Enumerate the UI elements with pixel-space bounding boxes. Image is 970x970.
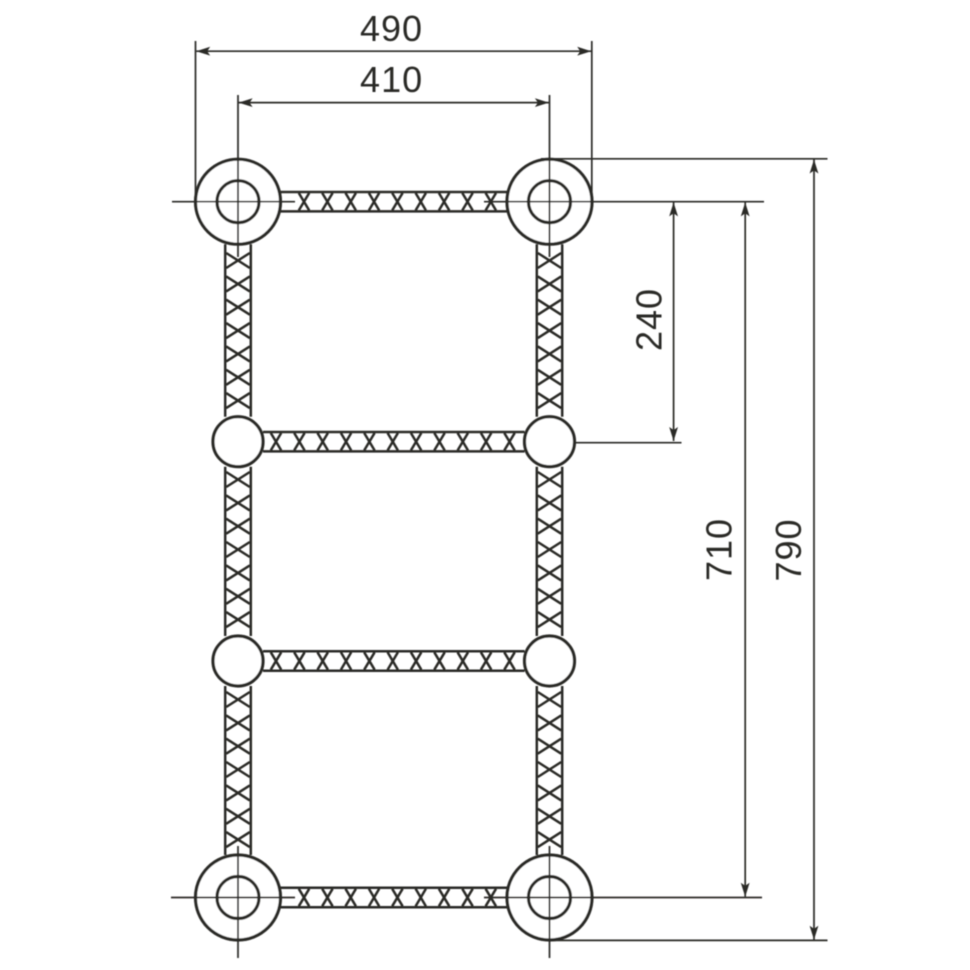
svg-text:240: 240 — [628, 288, 669, 351]
horizontal centerline through top-left flange — [172, 201, 295, 203]
reference line, top end of 790 dimension (tangent to top flange) — [541, 158, 828, 160]
bottom-left corner flange (outer and bore circles) — [196, 855, 281, 940]
right node circle, row 2 — [525, 636, 575, 686]
dimension line 790 with arrowheads — [810, 160, 819, 940]
svg-text:490: 490 — [360, 8, 423, 49]
right rail segment 2 (node row 1 to node row 2), lattice pattern — [537, 467, 562, 636]
vertical centerline through bottom-right flange — [549, 846, 551, 958]
svg-text:790: 790 — [768, 518, 809, 581]
horizontal centerline through top-right flange (extends right as 710/240 reference) — [484, 201, 764, 203]
bottom-right corner flange (outer and bore circles) — [507, 855, 592, 940]
left rail segment 1 (top flange to node row 1), lattice pattern — [225, 244, 251, 417]
left rail segment 3 (node row 2 to bottom flange), lattice pattern — [225, 686, 251, 855]
dimension line 490 with arrowheads — [196, 47, 591, 56]
left rail segment 2 (node row 1 to node row 2), lattice pattern — [225, 467, 251, 636]
top-right corner flange (outer and bore circles) — [507, 159, 592, 244]
dimension text 790 (rotated) — [768, 518, 809, 581]
rung at node row 1, lattice pattern — [263, 432, 525, 451]
vertical centerline through top-left flange (410 extension line) — [237, 95, 239, 257]
horizontal centerline through bottom-left flange — [171, 897, 295, 899]
top rung between top flanges, lattice pattern — [281, 192, 508, 211]
top-left corner flange (outer and bore circles) — [196, 159, 281, 244]
left node circle, row 2 — [213, 636, 263, 686]
reference line, bottom end of 240 dimension (row 1 centerline extension) — [575, 442, 682, 444]
reference line, bottom end of 790 dimension (tangent to bottom flange) — [550, 939, 828, 941]
svg-text:410: 410 — [360, 59, 423, 100]
dimension line 710 with arrowheads — [741, 202, 750, 896]
rung at node row 2, lattice pattern — [263, 651, 525, 670]
left node circle, row 1 — [213, 417, 263, 467]
dimension line 410 with arrowheads — [239, 98, 549, 107]
extension line, right end of 490 dimension — [591, 41, 593, 200]
dimension line 240 with arrowheads — [669, 202, 678, 441]
dimension text 490 — [360, 8, 423, 49]
dimension text 410 — [360, 59, 423, 100]
dimension text 710 (rotated) — [699, 518, 740, 581]
horizontal centerline through bottom-right flange (extends right as 710 reference) — [484, 897, 762, 899]
vertical centerline through bottom-left flange — [237, 846, 239, 958]
bottom rung between bottom flanges, lattice pattern — [281, 888, 508, 907]
vertical centerline through top-right flange (410 extension line) — [549, 95, 551, 257]
svg-text:710: 710 — [699, 518, 740, 581]
right node circle, row 1 — [525, 417, 575, 467]
right rail segment 3 (node row 2 to bottom flange), lattice pattern — [537, 686, 562, 855]
extension line, left end of 490 dimension — [195, 41, 197, 195]
right rail segment 1 (top flange to node row 1), lattice pattern — [537, 244, 562, 417]
dimension text 240 (rotated) — [628, 288, 669, 351]
